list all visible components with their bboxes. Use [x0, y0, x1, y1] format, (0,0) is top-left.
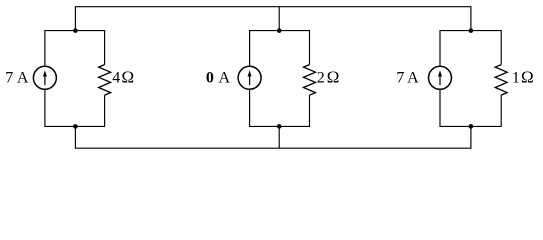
svg-text:A: A: [17, 70, 29, 87]
node junction bottom 3: [469, 124, 474, 129]
svg-text:0: 0: [206, 70, 214, 87]
current source I1 arrowhead: [43, 70, 47, 76]
node junction top 2: [277, 28, 282, 33]
svg-text:Ω: Ω: [327, 68, 340, 87]
wire loop section 3: [440, 31, 501, 127]
resistor R2 zigzag: [304, 65, 316, 96]
current source I3 arrowhead: [438, 70, 442, 76]
current source I2 circle: [238, 66, 261, 89]
wire bottom stub of middle branch: [278, 126, 280, 148]
wire loop section 2: [250, 31, 310, 127]
current source I3 arrow shaft: [439, 75, 441, 85]
wire top rail: [75, 7, 471, 31]
node junction bottom 1: [73, 124, 78, 129]
svg-text:2: 2: [317, 70, 325, 87]
svg-text:Ω: Ω: [122, 68, 135, 87]
wire bottom rail: [75, 126, 471, 148]
current source I1 circle: [33, 66, 56, 89]
svg-text:7: 7: [396, 70, 404, 87]
resistor R1 zigzag: [99, 65, 111, 96]
svg-text:A: A: [219, 70, 231, 87]
node junction bottom 2: [277, 124, 282, 129]
svg-text:4: 4: [112, 70, 120, 87]
node junction top 3: [469, 28, 474, 33]
node junction top 1: [73, 28, 78, 33]
current source I3 circle: [429, 66, 452, 89]
wire top stub of middle branch: [278, 7, 280, 31]
svg-text:1: 1: [512, 70, 520, 87]
current source I1 arrow shaft: [44, 75, 46, 85]
resistor R3 zigzag: [495, 65, 507, 96]
svg-text:7: 7: [5, 70, 13, 87]
wire loop section 1: [45, 31, 105, 127]
current source I2 arrow shaft: [249, 75, 251, 85]
svg-text:A: A: [407, 70, 419, 87]
current source I2 arrowhead: [248, 70, 252, 76]
svg-text:Ω: Ω: [521, 68, 534, 87]
